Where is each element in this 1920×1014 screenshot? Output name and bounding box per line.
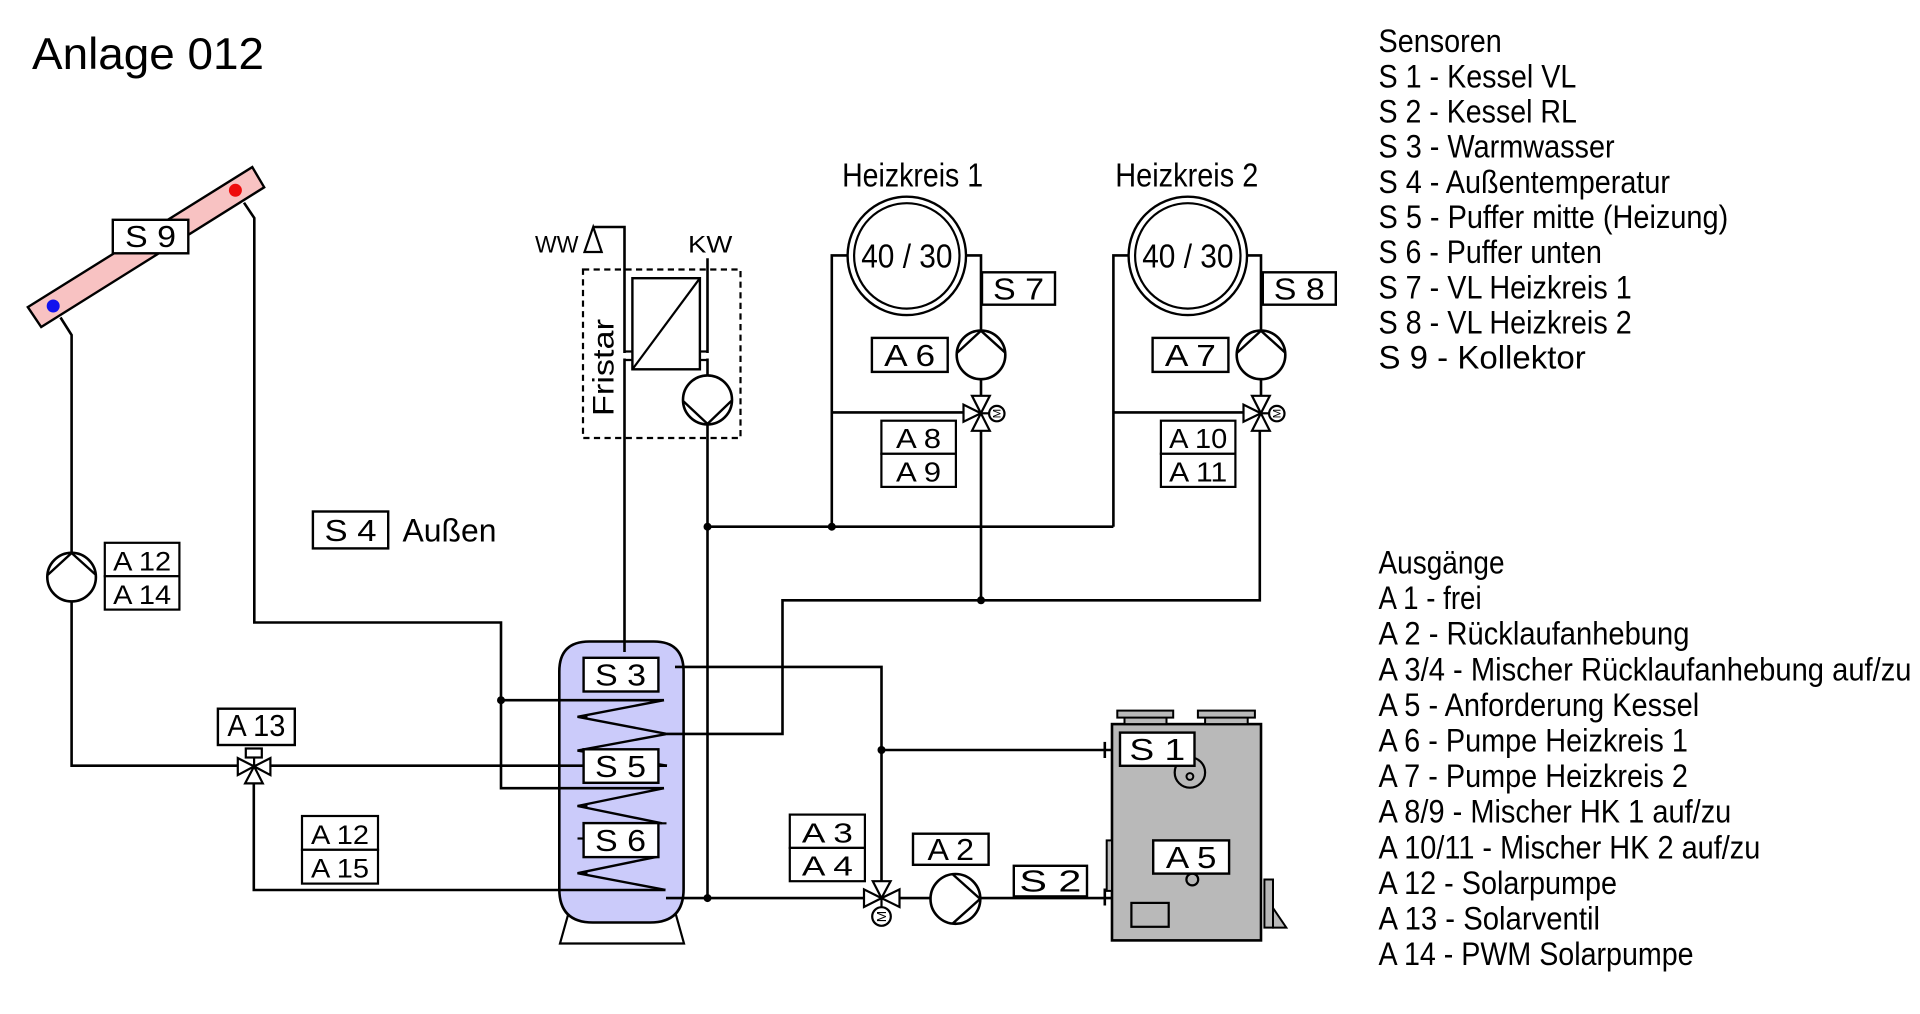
node junction header HK1 [828, 523, 836, 531]
svg-text:A 11: A 11 [1169, 456, 1227, 487]
boiler small circle below A5 [1186, 874, 1198, 886]
node junction header left [704, 523, 712, 531]
svg-text:A 14 - PWM Solarpumpe: A 14 - PWM Solarpumpe [1379, 936, 1694, 972]
wire branch into tank upper coil top [501, 699, 664, 702]
svg-text:A 3/4 - Mischer Rücklaufanhebu: A 3/4 - Mischer Rücklaufanhebung auf/zu [1379, 651, 1912, 687]
svg-text:A 13: A 13 [227, 708, 285, 743]
wire tank S3 to boiler supply [675, 667, 882, 898]
svg-text:Ausgänge: Ausgänge [1379, 545, 1505, 581]
label A 4 box [790, 848, 865, 881]
svg-text:S 5 - Puffer mitte (Heizung): S 5 - Puffer mitte (Heizung) [1379, 199, 1729, 235]
collector panel [28, 167, 264, 327]
label A 12 (solar pump) [105, 543, 180, 576]
svg-text:A 1 - frei: A 1 - frei [1379, 580, 1482, 616]
svg-text:Fristar: Fristar [588, 319, 621, 416]
svg-text:A 6 - Pumpe Heizkreis 1: A 6 - Pumpe Heizkreis 1 [1379, 723, 1688, 759]
svg-text:M: M [992, 409, 1004, 419]
boiler flue tab right [1264, 880, 1273, 928]
svg-text:S 6 - Puffer unten: S 6 - Puffer unten [1379, 234, 1602, 270]
svg-text:Außen: Außen [403, 513, 497, 549]
wire tank bottom to boiler return (through valve A3/4, pump A2) [666, 897, 1112, 900]
wire coil1 out to heating return riser [667, 413, 1260, 734]
boiler flange 2 [1198, 711, 1255, 725]
wire KW down / HK common return down to boiler line [706, 258, 709, 898]
HX stubs [623, 352, 709, 361]
node junction KW/boiler line [704, 894, 712, 902]
tank body [559, 642, 683, 923]
sensor S3 label box [584, 658, 659, 692]
svg-text:A 10/11 - Mischer HK 2 auf/zu: A 10/11 - Mischer HK 2 auf/zu [1379, 829, 1761, 865]
wire from valve A13 bottom to tank bottom coil [254, 767, 666, 890]
svg-text:S 2 - Kessel RL: S 2 - Kessel RL [1379, 94, 1577, 130]
svg-text:A 5 - Anforderung Kessel: A 5 - Anforderung Kessel [1379, 687, 1700, 723]
WW tap triangle [585, 227, 602, 252]
label A 10 box [1161, 421, 1236, 454]
LEGEND sensors [1379, 23, 1729, 375]
radiator HK1 [848, 197, 966, 315]
boiler door [1131, 903, 1168, 927]
wire tank top WW connection [593, 227, 624, 652]
svg-text:S 3: S 3 [595, 658, 646, 693]
svg-text:Heizkreis 2: Heizkreis 2 [1115, 157, 1258, 194]
dashed enclosure [583, 270, 741, 439]
label A 11 box [1161, 454, 1236, 487]
label A 13 box [218, 709, 295, 745]
svg-text:40 / 30: 40 / 30 [1142, 237, 1233, 274]
sensor S9 label box [113, 220, 189, 254]
svg-text:A 15: A 15 [311, 854, 369, 884]
svg-text:S 7 - VL Heizkreis 1: S 7 - VL Heizkreis 1 [1379, 269, 1632, 305]
svg-text:S 8 - VL Heizkreis 2: S 8 - VL Heizkreis 2 [1379, 304, 1632, 340]
valve A13 solar valve (3-way) [238, 749, 271, 784]
collector hot port (red) [229, 184, 242, 197]
label A 2 box [913, 834, 989, 865]
boiler flange 1 [1117, 711, 1173, 725]
valve A3/A4 return-raise mixer [864, 881, 900, 926]
svg-text:S 2: S 2 [1019, 864, 1081, 899]
coil 3 zigzag (below S6) [578, 857, 666, 890]
svg-text:A 9: A 9 [896, 456, 941, 487]
svg-text:A 7 - Pumpe Heizkreis 2: A 7 - Pumpe Heizkreis 2 [1379, 758, 1688, 794]
label A 7 box [1153, 338, 1229, 372]
node junction boiler feed [878, 746, 886, 754]
radiator HK2 [1129, 197, 1247, 315]
svg-text:40 / 30: 40 / 30 [861, 237, 952, 274]
LEGEND outputs [1379, 545, 1912, 973]
pump A2 return raise pump [931, 874, 981, 924]
heat exchanger plate [632, 278, 700, 369]
svg-text:A 4: A 4 [802, 851, 853, 882]
svg-text:S 4 - Außentemperatur: S 4 - Außentemperatur [1379, 164, 1671, 200]
label A 9 box [881, 454, 956, 487]
svg-text:Heizkreis 1: Heizkreis 1 [842, 157, 983, 194]
label A 6 box [872, 338, 948, 372]
pump A7 heating circuit 2 [1237, 331, 1286, 380]
wire HK2 right riser [1247, 255, 1261, 413]
svg-text:S 9: S 9 [125, 219, 176, 254]
svg-text:KW: KW [688, 232, 733, 259]
sensor S6 label box [584, 823, 659, 857]
wire solar cold return from collector bottom-left down to solar pump and valve A13 to tank S5 [61, 318, 668, 766]
svg-text:A 5: A 5 [1166, 840, 1217, 875]
svg-text:S 8: S 8 [1274, 272, 1325, 307]
svg-text:A 12 - Solarpumpe: A 12 - Solarpumpe [1379, 865, 1618, 901]
coil 1 zigzag (between S3 and S5) [578, 700, 668, 766]
svg-text:M: M [1272, 409, 1284, 419]
svg-text:M: M [874, 911, 889, 922]
svg-text:A 8/9 - Mischer HK 1 auf/zu: A 8/9 - Mischer HK 1 auf/zu [1379, 794, 1732, 830]
svg-text:S 1 - Kessel VL: S 1 - Kessel VL [1379, 58, 1577, 94]
label A 3 box [790, 815, 865, 848]
boiler S1 terminal tick [1104, 742, 1107, 758]
pump A6 heating circuit 1 [957, 331, 1006, 380]
coil 2 zigzag (between S5 and S6) [578, 788, 665, 823]
sensor S5 label box [584, 749, 659, 783]
valve A10/A11 mixer HK2 [1244, 396, 1285, 431]
svg-text:S 9 - Kollektor: S 9 - Kollektor [1379, 340, 1587, 376]
label A 8 box [881, 421, 956, 454]
valve A8/A9 mixer HK1 [964, 396, 1005, 431]
pump A12 solar pump [47, 553, 96, 602]
svg-text:A 8: A 8 [896, 423, 941, 454]
svg-text:S 6: S 6 [595, 823, 646, 858]
boiler left mid tab [1107, 840, 1112, 891]
boiler S2 terminal tick [1104, 889, 1107, 906]
coil tip ticks [578, 717, 667, 873]
svg-text:Anlage 012: Anlage 012 [32, 30, 264, 79]
collector cold port (blue) [47, 300, 60, 313]
svg-text:A 14: A 14 [113, 580, 171, 610]
wire HK1 right riser (supply) [966, 255, 981, 413]
wire boiler S1 feed [882, 749, 1113, 752]
wire HK radiators return header [708, 525, 1114, 528]
label A 12 (lower, solar) [302, 816, 378, 850]
svg-text:S 4: S 4 [325, 513, 377, 548]
svg-text:Sensoren: Sensoren [1379, 23, 1502, 59]
sensor S8 label box [1263, 272, 1336, 304]
wire HK1 mixer drop [980, 413, 983, 600]
svg-text:S 1: S 1 [1129, 732, 1185, 767]
boiler flue triangle [1273, 908, 1286, 928]
sensor S1 label box [1120, 733, 1195, 766]
tick S6 left stub [578, 837, 585, 839]
svg-text:A 2 - Rücklaufanhebung: A 2 - Rücklaufanhebung [1379, 616, 1690, 652]
svg-text:S 5: S 5 [595, 749, 646, 784]
node junction HK1 drop [977, 596, 985, 604]
svg-text:A 12: A 12 [311, 820, 369, 850]
svg-text:S 3 - Warmwasser: S 3 - Warmwasser [1379, 129, 1615, 165]
label A 15 [302, 850, 378, 884]
svg-text:A 3: A 3 [802, 817, 853, 848]
wire HK2 mixer bypass feed [1113, 411, 1243, 414]
svg-text:A 13 - Solarventil: A 13 - Solarventil [1379, 901, 1601, 937]
wire solar hot supply from collector top-right down, across, down into tank [244, 203, 664, 789]
sensor S7 label box [982, 272, 1055, 304]
svg-text:A 10: A 10 [1169, 423, 1227, 454]
boiler burner circle [1175, 757, 1205, 787]
wire HK1 mixer bypass feed [832, 411, 964, 414]
svg-text:A 2: A 2 [928, 832, 975, 867]
sensor S4 outdoor label box [313, 512, 388, 549]
tank stand [560, 915, 684, 944]
svg-text:WW: WW [535, 232, 579, 259]
boiler body [1112, 724, 1261, 940]
wire HK1 left drop (radiator return) [832, 255, 848, 526]
sensor S2 label box [1014, 866, 1087, 897]
svg-text:A 7: A 7 [1165, 338, 1216, 373]
node junction solar branch [497, 696, 505, 704]
pump Fristar [683, 375, 732, 424]
svg-text:A 6: A 6 [884, 338, 935, 373]
label A 5 box [1153, 840, 1229, 873]
wire HK2 left drop [1113, 255, 1129, 526]
svg-text:S 7: S 7 [993, 272, 1044, 307]
label A 14 (PWM solar pump) [105, 576, 180, 609]
svg-text:A 12: A 12 [113, 547, 171, 577]
